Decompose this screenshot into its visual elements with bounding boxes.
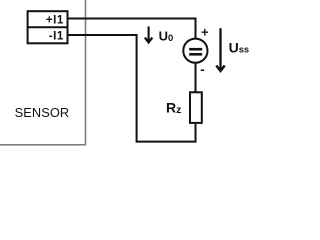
wire source to resistor (195, 63, 197, 93)
svg-text:SENSOR: SENSOR (15, 105, 70, 120)
U0 arrow (148, 26, 150, 40)
svg-text:+: + (201, 24, 209, 39)
resistor Rz body (190, 92, 202, 123)
svg-text:-: - (200, 62, 204, 77)
voltage source G1 (circle with = bars) (183, 39, 207, 63)
terminal block X1 (+I1 / -I1) (28, 11, 68, 43)
Uss arrow (219, 28, 221, 69)
svg-text:+I1: +I1 (46, 13, 64, 26)
svg-text:-I1: -I1 (49, 29, 64, 42)
sensor box U1 (SENSOR block outline) (0, 0, 86, 145)
wire from -I1 down and along bottom to resistor (68, 35, 196, 142)
wire from +I1 to source top (68, 19, 196, 39)
